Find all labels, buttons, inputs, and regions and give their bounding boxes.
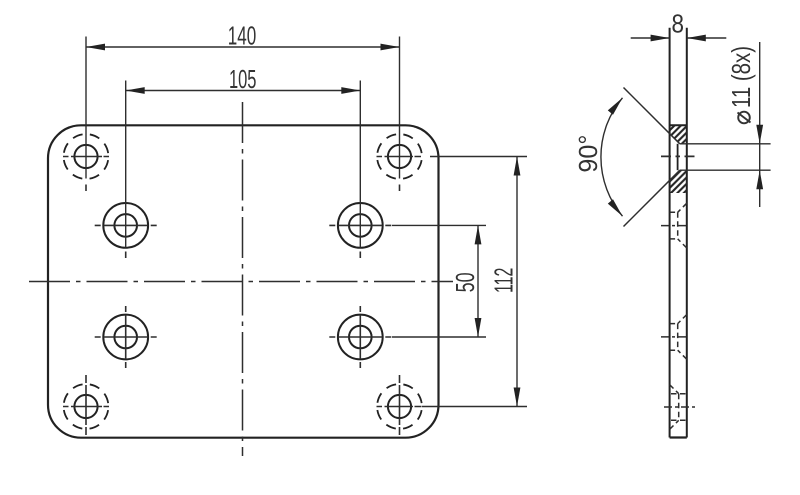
hole bottom-right corner (countersunk far side) [377, 375, 422, 435]
hole bottom-left corner (countersunk far side) [63, 375, 109, 435]
side view top edge [670, 124, 687, 126]
side view right edge + extension up [686, 28, 688, 438]
hole bottom-right inner (countersunk near side) [329, 306, 391, 368]
dimension 8 (thickness) [631, 35, 727, 42]
arc arrow bottom [608, 199, 623, 216]
svg-text:90°: 90° [573, 135, 603, 173]
section hatch below hole [670, 170, 687, 193]
section hatch above hole [670, 125, 687, 144]
side view bottom edge [670, 436, 687, 438]
side view left edge + extension up [669, 28, 671, 438]
svg-text:105: 105 [229, 64, 257, 94]
svg-text:11 (8x): 11 (8x) [726, 46, 756, 108]
svg-text:140: 140 [228, 21, 257, 51]
hidden hole C (corner row, y=406.5, countersink left) [664, 385, 696, 430]
dimension 140 (top) [86, 37, 400, 179]
dimension 50 (right, inner holes) [392, 225, 486, 337]
countersink cone line upper [624, 88, 680, 144]
label dia 11 (8x) [726, 46, 756, 123]
vertical centerline [242, 102, 244, 456]
arc arrow top [608, 98, 623, 115]
hole top-left corner (countersunk far side) [63, 134, 109, 191]
plate outline (rounded square) [48, 125, 439, 437]
svg-text:8: 8 [671, 9, 684, 39]
dimension 112 (right, corner holes) [422, 157, 528, 407]
hole bottom-left inner (countersunk near side) [95, 306, 157, 368]
90 degree dimension arc [601, 98, 623, 216]
dimension 105 [126, 81, 361, 248]
countersink cone line lower [624, 170, 680, 226]
dimension dia 11 (8x) [680, 42, 771, 207]
hole top-right corner (countersunk far side) [377, 134, 422, 191]
svg-text:50: 50 [450, 272, 480, 292]
section hole cylindrical wall line [677, 144, 679, 170]
section hole centerline [661, 155, 697, 157]
hole top-left inner (countersunk near side) [95, 203, 157, 258]
hidden hole B (inner row, y=337, countersink right) [661, 315, 689, 360]
hole top-right inner (countersunk near side) [329, 203, 391, 258]
hidden hole A (inner row, y=225.5, countersink right) [661, 203, 689, 248]
horizontal centerline [29, 281, 453, 283]
svg-text:112: 112 [489, 268, 519, 293]
